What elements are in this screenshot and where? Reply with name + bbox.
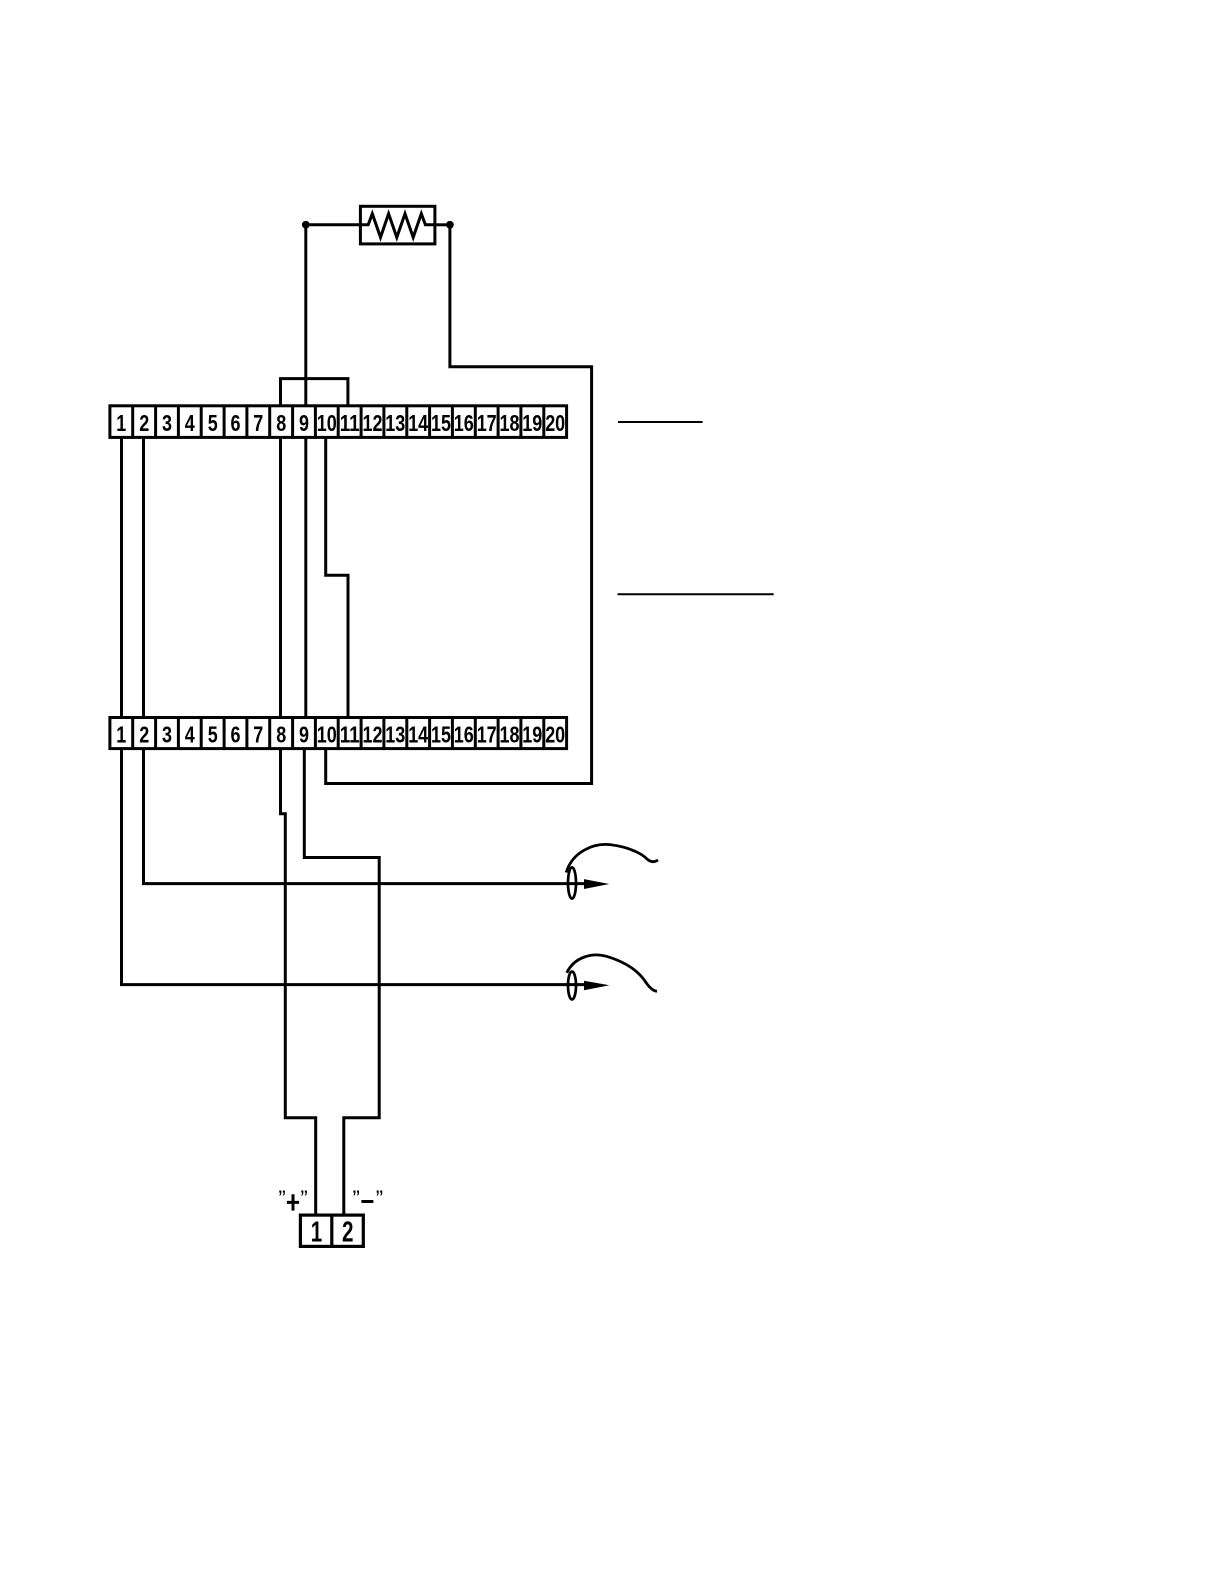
polarity label "+" xyxy=(278,1186,307,1211)
leader line (upper annotation) xyxy=(618,421,703,423)
svg-text:15: 15 xyxy=(431,410,451,436)
junction dot (left resistor node) xyxy=(302,221,310,229)
wire: top terminal 8 to bottom terminal 8 xyxy=(279,437,282,717)
wire: bottom terminal 2 down and right to upper pass-through arrow xyxy=(144,749,586,884)
jumper wire over top strip terminals 8-11 xyxy=(281,379,348,406)
svg-text:7: 7 xyxy=(253,410,263,436)
polarity label "-" xyxy=(353,1186,384,1211)
top strip pin numbers 1-20 xyxy=(116,410,565,436)
wire: bottom terminal 9 to power block terminal 2 ("-") xyxy=(304,749,379,1216)
svg-text:”: ” xyxy=(376,1186,383,1211)
svg-text:12: 12 xyxy=(363,721,383,747)
resistor R1 (box with zigzag) xyxy=(360,206,435,244)
wire: bottom terminal 8 to power block terminal 1 ("+") xyxy=(281,749,316,1216)
terminal strip (top strip, terminals 1-20) xyxy=(110,406,567,438)
svg-text:12: 12 xyxy=(363,410,383,436)
wire: top terminal 1 to bottom terminal 1 xyxy=(120,437,123,717)
svg-text:1: 1 xyxy=(116,410,126,436)
arrowhead of lower arrow xyxy=(584,981,610,991)
pass-through point (eyelet) of upper arrow xyxy=(568,867,576,898)
svg-text:5: 5 xyxy=(208,721,218,747)
svg-text:2: 2 xyxy=(139,721,149,747)
svg-text:18: 18 xyxy=(500,721,520,747)
wire: top terminal 2 to bottom terminal 2 xyxy=(142,437,145,717)
leader line (lower annotation) xyxy=(618,593,774,595)
svg-text:2: 2 xyxy=(342,1217,354,1249)
power terminal block (terminals 1,2) xyxy=(300,1215,363,1246)
wire: resistor right lead xyxy=(435,223,450,226)
svg-text:4: 4 xyxy=(185,721,195,747)
wire: left node down to top strip terminal 9 xyxy=(304,225,307,406)
bottom strip pin numbers 1-20 xyxy=(116,721,565,747)
svg-text:14: 14 xyxy=(408,410,428,436)
svg-text:14: 14 xyxy=(408,721,428,747)
svg-text:8: 8 xyxy=(276,410,286,436)
svg-text:19: 19 xyxy=(522,410,542,436)
junction dot (right resistor node) xyxy=(446,221,454,229)
svg-text:13: 13 xyxy=(385,410,405,436)
svg-text:9: 9 xyxy=(299,721,309,747)
power block pin numbers 1,2 xyxy=(311,1217,354,1249)
svg-text:3: 3 xyxy=(162,721,172,747)
curved lead-through arc of lower arrow xyxy=(567,955,657,991)
svg-text:11: 11 xyxy=(340,721,360,747)
svg-text:8: 8 xyxy=(276,721,286,747)
svg-text:6: 6 xyxy=(231,410,241,436)
wire: right node down, right bus, to bottom strip terminal 10 xyxy=(326,225,592,784)
svg-text:9: 9 xyxy=(299,410,309,436)
wire: bottom terminal 1 down and right to lower pass-through arrow xyxy=(122,749,586,985)
wire: resistor left lead xyxy=(306,223,361,226)
svg-text:18: 18 xyxy=(500,410,520,436)
svg-text:1: 1 xyxy=(311,1217,323,1249)
svg-text:17: 17 xyxy=(477,721,497,747)
svg-text:10: 10 xyxy=(317,721,337,747)
svg-text:3: 3 xyxy=(162,410,172,436)
svg-text:7: 7 xyxy=(253,721,263,747)
svg-text:5: 5 xyxy=(208,410,218,436)
pass-through point (eyelet) of lower arrow xyxy=(568,972,576,1000)
wire: top terminal 9 to bottom terminal 9 xyxy=(304,437,307,717)
svg-text:16: 16 xyxy=(454,721,474,747)
svg-text:11: 11 xyxy=(340,410,360,436)
svg-text:2: 2 xyxy=(139,410,149,436)
svg-text:17: 17 xyxy=(477,410,497,436)
svg-text:20: 20 xyxy=(545,721,565,747)
svg-text:4: 4 xyxy=(185,410,195,436)
svg-text:10: 10 xyxy=(317,410,337,436)
svg-text:19: 19 xyxy=(522,721,542,747)
svg-text:15: 15 xyxy=(431,721,451,747)
svg-text:20: 20 xyxy=(545,410,565,436)
wire: top terminal 10 to bottom terminal 11 (with jog) xyxy=(326,437,348,717)
svg-text:”: ” xyxy=(353,1186,360,1211)
svg-text:1: 1 xyxy=(116,721,126,747)
svg-text:13: 13 xyxy=(385,721,405,747)
svg-text:”: ” xyxy=(278,1186,285,1211)
terminal strip (bottom strip, terminals 1-20) xyxy=(110,718,567,749)
arrowhead of upper arrow xyxy=(584,879,609,889)
svg-text:”: ” xyxy=(300,1186,307,1211)
svg-text:16: 16 xyxy=(454,410,474,436)
svg-text:6: 6 xyxy=(231,721,241,747)
curved lead-through arc of upper arrow xyxy=(566,844,658,872)
